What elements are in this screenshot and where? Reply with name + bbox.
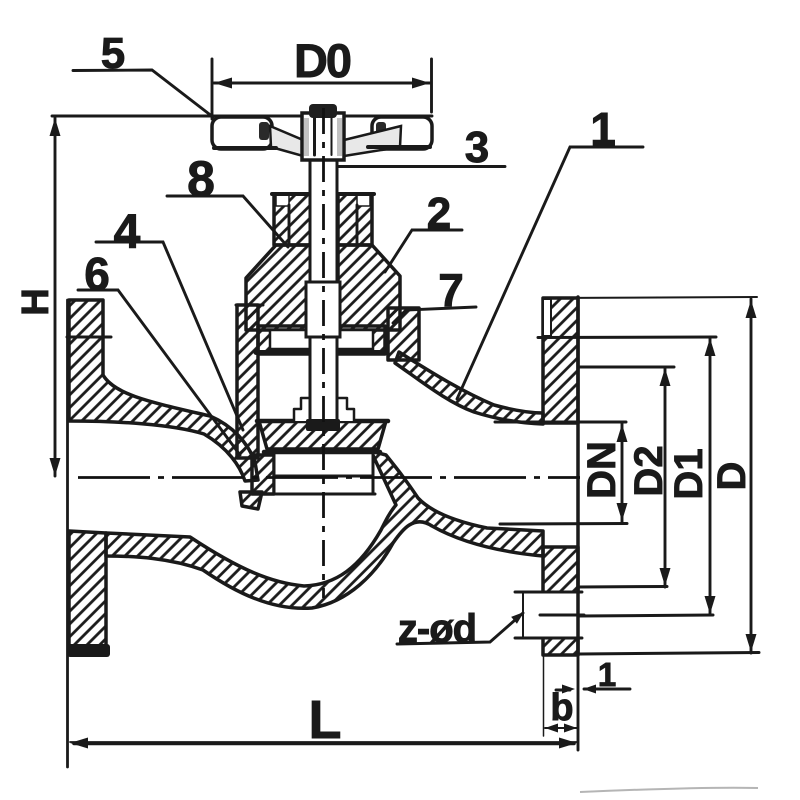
svg-text:6: 6 <box>84 248 110 300</box>
svg-text:D: D <box>710 462 754 491</box>
svg-text:D1: D1 <box>667 448 711 499</box>
svg-text:b: b <box>550 687 573 729</box>
svg-text:3: 3 <box>465 123 489 172</box>
svg-text:1: 1 <box>590 103 616 155</box>
svg-text:8: 8 <box>187 151 215 207</box>
svg-text:DN: DN <box>580 441 624 499</box>
svg-text:L: L <box>309 690 342 750</box>
svg-text:D0: D0 <box>294 34 351 87</box>
svg-text:H: H <box>15 288 57 315</box>
svg-text:7: 7 <box>438 264 464 316</box>
svg-text:4: 4 <box>114 206 141 259</box>
svg-text:1: 1 <box>598 656 616 693</box>
svg-text:D2: D2 <box>627 445 671 496</box>
svg-text:z-ød: z-ød <box>398 607 476 651</box>
svg-text:5: 5 <box>101 29 125 78</box>
svg-text:2: 2 <box>427 189 451 238</box>
